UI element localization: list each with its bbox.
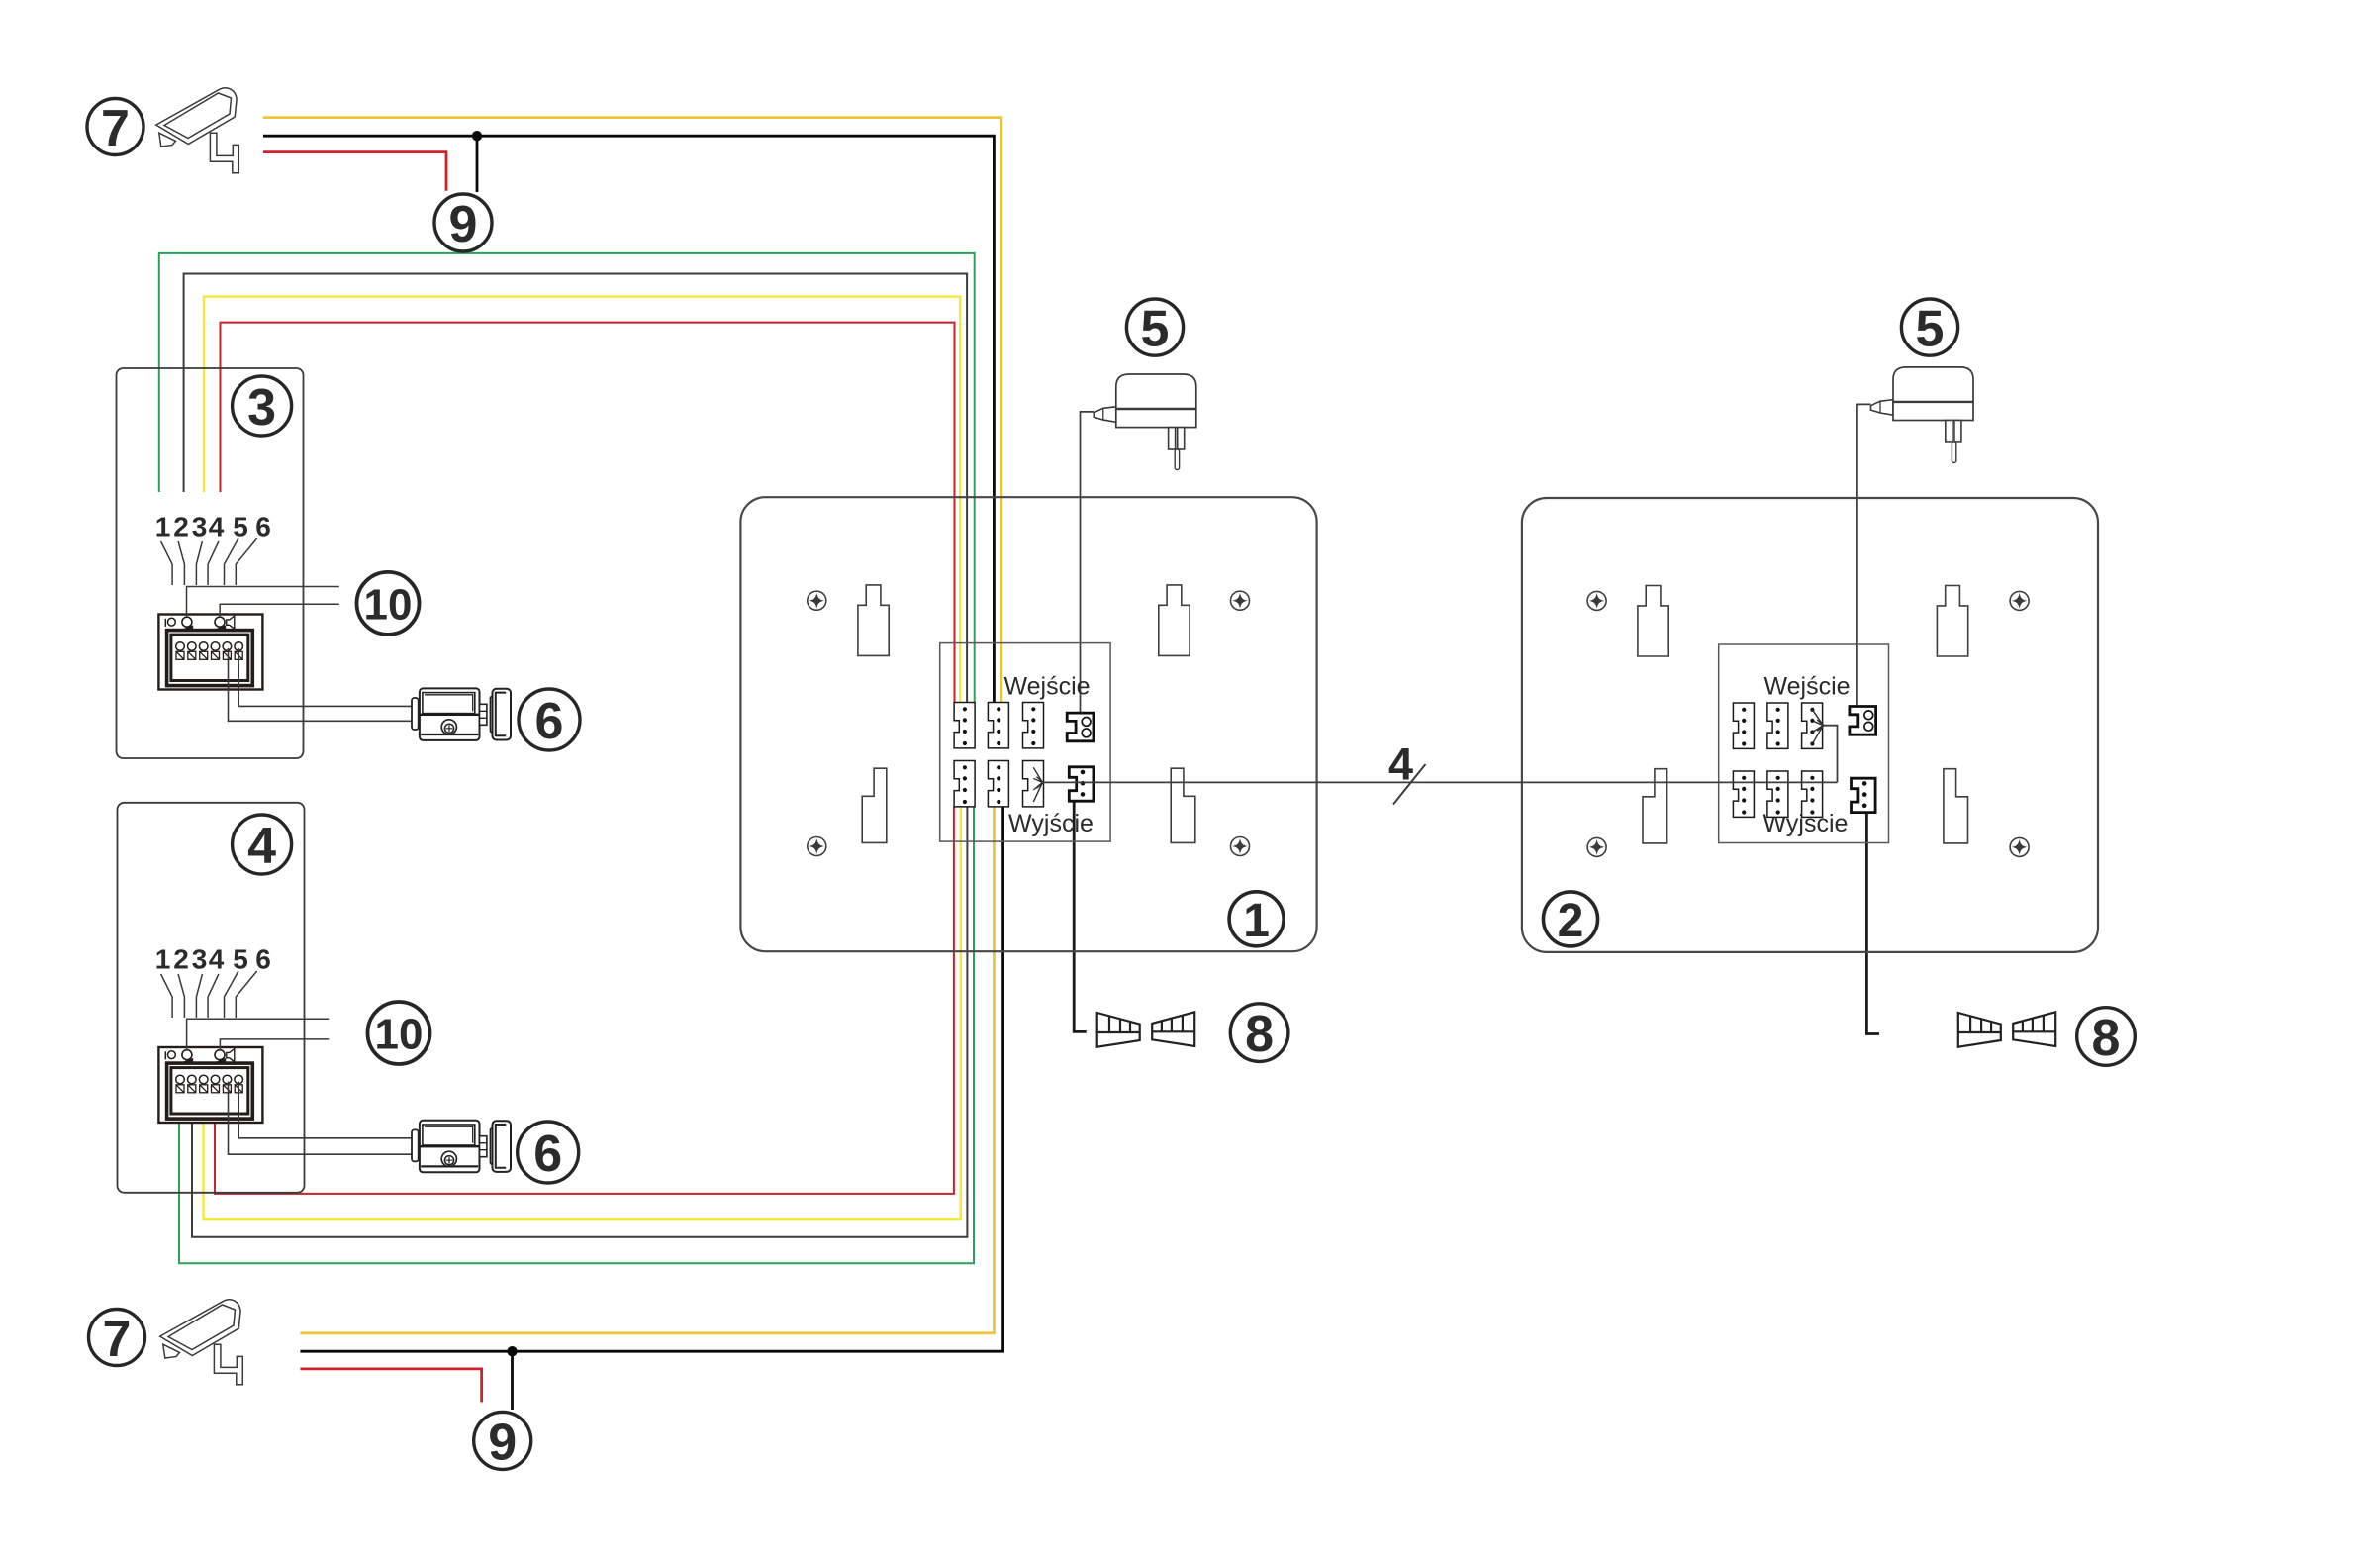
interconnect wire 4 between panels (1042, 781, 1838, 783)
label circle 9 top (434, 194, 492, 251)
svg-text:7: 7 (103, 1311, 132, 1368)
connector block panel-2 out-2 (1767, 771, 1788, 817)
svg-text:9: 9 (449, 196, 478, 253)
terminal block station 4 (158, 1047, 262, 1123)
label circle 1 (1229, 892, 1284, 946)
screw panel-1 top-left (808, 591, 826, 610)
lock wire a station 4 (238, 1082, 412, 1138)
keyhole slot panel-1 top-right (1159, 585, 1190, 656)
wire: power adapter 1 to panel-1 (1081, 412, 1095, 713)
label circle 7 bottom (89, 1310, 145, 1366)
power adapter 2 (1871, 367, 1974, 463)
wire: camera-2 red stub to label 9 bottom (300, 1369, 481, 1403)
wire: power adapter 2 to panel-2 (1857, 404, 1871, 706)
power connector 2-pin panel-2 (1850, 707, 1876, 735)
svg-text:1: 1 (155, 944, 171, 975)
label circle 9 bottom (474, 1412, 531, 1469)
svg-text:8: 8 (1245, 1006, 1274, 1063)
electric strike lock station 3 (412, 688, 511, 740)
svg-text:4: 4 (247, 818, 276, 875)
svg-text:3: 3 (192, 944, 208, 975)
wire: camera-1 red stub to label 9 (263, 152, 446, 191)
callout wire to 10 (terminal 4) station 3 (220, 604, 339, 617)
wire: station-3 black to panel-1 Wejscie (184, 274, 968, 703)
wire: speaker lead panel-1 (1074, 801, 1087, 1031)
door station 4 box (118, 803, 305, 1193)
wire count slash (1393, 764, 1426, 805)
connector block panel-1 out-2 (988, 761, 1008, 807)
wire: camera-2 black to panel-1 Wyjscie (300, 807, 1002, 1351)
svg-text:8: 8 (2092, 1010, 2121, 1067)
wire: station-4 green to panel-1 Wyjscie (179, 807, 974, 1263)
lock wire b station 4 (229, 1082, 413, 1155)
label circle 8 left (1230, 1004, 1288, 1062)
keyhole slot panel-2 bottom-left (1643, 769, 1667, 843)
label circle 5 right (1901, 299, 1957, 355)
speaker connector 3-pin panel-2 (1852, 778, 1876, 812)
svg-text:3: 3 (192, 512, 208, 542)
wire: camera-2 yellow to panel-1 Wyjscie (300, 807, 994, 1333)
label circle 10 station 4 (368, 1002, 430, 1064)
connector block panel-1 in-1 (954, 703, 975, 748)
camera 2 (CCTV) icon (160, 1300, 243, 1385)
label circle 10 station 3 (357, 572, 420, 635)
speaker horn left panel-2 (1958, 1013, 2001, 1047)
connector box panel-1 (940, 643, 1110, 842)
wire: camera-1 yellow to panel-1 Wejscie (263, 118, 1001, 703)
junction dot: camera-2 black tap (507, 1346, 517, 1356)
label circle 4 (233, 815, 292, 874)
screw panel-2 bottom-right (2010, 837, 2029, 856)
screw panel-1 top-right (1231, 591, 1250, 610)
svg-text:4: 4 (209, 512, 225, 542)
label circle 2 (1544, 892, 1598, 946)
wire: speaker lead panel-2 (1866, 810, 1879, 1034)
wire: station-4 yellow to panel-1 Wyjscie (204, 807, 961, 1219)
svg-text:2: 2 (173, 512, 189, 542)
svg-text:Wyjście: Wyjście (1008, 810, 1094, 837)
speaker horn left panel-1 (1097, 1013, 1140, 1047)
svg-text:1: 1 (155, 512, 171, 542)
wire: camera-1 black to panel-1 Wejscie (263, 136, 994, 702)
svg-text:10: 10 (375, 1011, 424, 1059)
screw panel-2 top-right (2010, 591, 2029, 610)
svg-text:6: 6 (533, 1126, 562, 1183)
keyhole slot panel-2 bottom-right (1944, 769, 1968, 843)
keyhole slot panel-1 bottom-left (862, 768, 887, 842)
svg-text:4: 4 (209, 944, 225, 975)
junction dot: camera-1 black tap (472, 131, 482, 141)
connector box panel-2 (1719, 644, 1889, 843)
connector block panel-1 in-2 (988, 703, 1008, 748)
label circle 3 (233, 376, 292, 436)
svg-text:10: 10 (364, 580, 413, 629)
speaker horn right panel-1 (1152, 1012, 1194, 1046)
terminal block station 3 (158, 615, 262, 690)
svg-text:Wejście: Wejście (1763, 673, 1850, 701)
connector block panel-1 in-3 (1023, 703, 1044, 748)
lock wire b station 3 (229, 648, 413, 721)
panel 2 backplate (1522, 498, 2098, 952)
speaker connector 3-pin panel-1 (1069, 767, 1094, 801)
electric strike lock station 4 (412, 1121, 511, 1173)
wire: station-4 black to panel-1 Wyjscie (192, 807, 967, 1237)
fan wires station 4 (161, 974, 173, 1018)
connector block panel-1 out-1 (954, 761, 975, 807)
wire: black stub from junction to label 9 bottom (511, 1351, 514, 1410)
connector block panel-2 out-1 (1733, 771, 1754, 817)
svg-text:5: 5 (233, 944, 248, 975)
svg-text:7: 7 (101, 100, 130, 157)
connector block panel-2 out-3 (1802, 771, 1823, 817)
label circle 7 top (87, 99, 143, 155)
svg-text:5: 5 (1141, 301, 1170, 358)
panel 1 backplate (740, 497, 1316, 951)
svg-text:4: 4 (1388, 739, 1413, 790)
wire: station-3 green to panel-1 Wejscie (159, 253, 975, 703)
keyhole slot panel-2 top-left (1638, 586, 1668, 657)
door station 3 box (117, 368, 304, 758)
camera 1 (CCTV) icon (156, 88, 239, 173)
callout wire to 10 (terminal 4) station 4 (220, 1039, 329, 1050)
connector block panel-2 in-1 (1733, 703, 1754, 748)
connector block panel-2 in-2 (1767, 703, 1788, 748)
connector block panel-1 out-3 arrow (1023, 761, 1044, 807)
svg-text:5: 5 (1916, 301, 1945, 358)
svg-text:3: 3 (247, 379, 276, 437)
keyhole slot panel-1 bottom-right (1171, 768, 1195, 842)
power connector 2-pin panel-1 (1067, 713, 1094, 741)
screw panel-1 bottom-right (1231, 837, 1250, 856)
svg-text:1: 1 (1243, 895, 1270, 947)
wire: station-4 red to panel-1 Wyjscie (215, 807, 954, 1194)
svg-text:6: 6 (255, 512, 271, 542)
label circle 8 right (2077, 1008, 2136, 1066)
svg-text:6: 6 (535, 693, 564, 750)
keyhole slot panel-1 top-left (858, 585, 889, 656)
screw panel-2 top-left (1587, 591, 1606, 610)
wire: lead from panel-2 arrow block to interconnect (1823, 726, 1837, 783)
svg-text:2: 2 (173, 944, 189, 975)
svg-text:5: 5 (233, 512, 248, 542)
svg-text:9: 9 (488, 1414, 517, 1471)
label circle 5 left (1126, 299, 1183, 355)
wire: station-3 yellow to panel-1 Wejscie (204, 297, 960, 703)
keyhole slot panel-2 top-right (1937, 586, 1967, 657)
fan wires station 3 (161, 541, 173, 585)
callout wire to 10 (terminal 2) station 4 (187, 1019, 330, 1050)
power adapter 1 (1094, 374, 1196, 470)
label circle 6 station 3 (519, 689, 580, 750)
connector block panel-2 in-3 arrow (1802, 703, 1823, 748)
lock wire a station 3 (238, 648, 412, 706)
svg-text:2: 2 (1558, 895, 1584, 947)
svg-text:Wejście: Wejście (1003, 673, 1090, 701)
svg-text:6: 6 (255, 944, 271, 975)
speaker horn right panel-2 (2013, 1012, 2055, 1046)
callout wire to 10 (terminal 2) station 3 (187, 587, 339, 618)
wire: station-3 red to panel-1 Wejscie (221, 323, 955, 703)
wire: black stub from junction to label 9 (476, 136, 479, 192)
screw panel-1 bottom-left (808, 837, 826, 856)
label circle 6 station 4 (518, 1122, 579, 1183)
screw panel-2 bottom-left (1587, 837, 1606, 856)
